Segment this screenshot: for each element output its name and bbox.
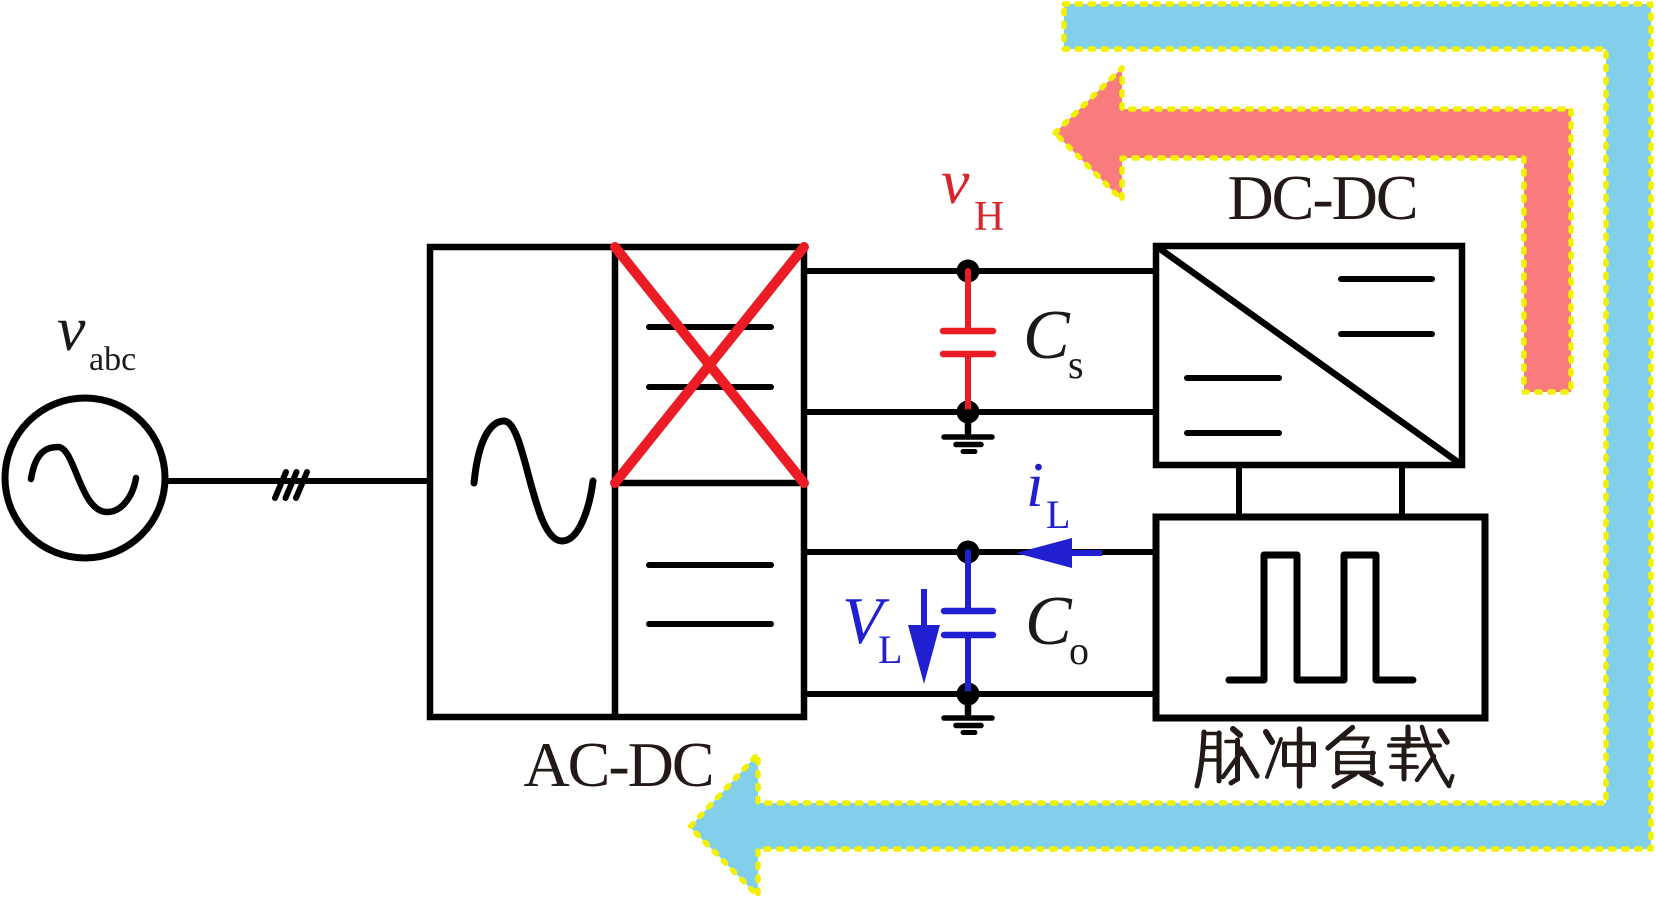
DC-DC upper-right bars <box>1341 279 1432 334</box>
capacitor Co (blue) <box>944 552 993 694</box>
wire bottom bus (-) <box>804 691 1156 697</box>
DC-DC lower-left bars <box>1187 378 1279 433</box>
connector DC-DC to pulse load (left) <box>1236 465 1242 517</box>
node bottom + <box>957 541 980 564</box>
AC-DC sine symbol <box>474 421 593 541</box>
svg-text:s: s <box>1068 342 1084 387</box>
AC source circle <box>5 398 165 558</box>
AC-DC inner horizontal divider <box>615 480 804 487</box>
wire top bus (-) <box>804 409 1156 415</box>
脉 <box>1197 729 1257 786</box>
pulse load box <box>1156 517 1485 718</box>
DC-DC diagonal <box>1156 246 1462 465</box>
svg-text:C: C <box>1023 297 1071 374</box>
svg-text:v: v <box>941 146 970 217</box>
capacitor Cs (red) <box>943 271 993 412</box>
svg-text:v: v <box>57 293 86 364</box>
svg-text:DC-DC: DC-DC <box>1227 162 1416 233</box>
AC-DC lower-right DC bars <box>649 565 771 624</box>
pulse waveform <box>1229 555 1413 680</box>
svg-text:H: H <box>974 194 1004 240</box>
ground (bottom bus) <box>944 694 992 733</box>
AC-DC inner vertical divider <box>612 247 619 717</box>
svg-text:L: L <box>878 627 902 672</box>
svg-text:i: i <box>1026 449 1044 520</box>
载 <box>1389 727 1453 786</box>
node bottom - <box>957 683 980 706</box>
VL direction arrow (down) <box>908 589 940 684</box>
AC source sine glyph <box>31 447 136 512</box>
node top - <box>957 401 980 424</box>
wire top bus (+) <box>804 268 1156 274</box>
svg-text:C: C <box>1025 583 1073 660</box>
red X over upper-right cell <box>615 247 804 483</box>
pulse load label (脉冲负载), hand drawn glyphs <box>1197 727 1453 787</box>
node top + <box>957 260 980 283</box>
svg-text:o: o <box>1069 628 1089 673</box>
负 <box>1328 728 1381 787</box>
DC-DC converter box <box>1156 246 1462 465</box>
wire source to AC-DC <box>165 478 430 484</box>
冲 <box>1266 729 1314 786</box>
AC-DC upper-right DC bars <box>649 327 771 387</box>
svg-text:abc: abc <box>89 341 136 378</box>
svg-text:AC-DC: AC-DC <box>523 729 712 800</box>
wire bottom bus (+) <box>804 549 1156 555</box>
AC-DC converter box <box>430 247 804 717</box>
blue energy-flow arrow (top right loop to bottom-left arrowhead) <box>690 4 1651 896</box>
current iL arrow <box>1016 538 1102 568</box>
svg-text:L: L <box>1046 492 1070 537</box>
pink energy-flow arrow (top, pointing left) <box>1055 68 1571 392</box>
connector DC-DC to pulse load (right) <box>1399 465 1405 517</box>
ground (top bus) <box>944 412 992 452</box>
three-phase slash marks <box>275 472 307 498</box>
